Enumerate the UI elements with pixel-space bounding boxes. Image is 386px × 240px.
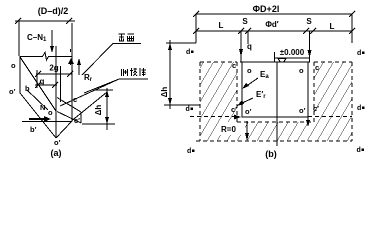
svg-text:d: d	[187, 148, 191, 155]
delta-h bottom ref	[82, 123, 115, 125]
svg-text:Δh: Δh	[94, 105, 103, 116]
extension line left	[18, 21, 20, 56]
delta-h top ref	[94, 89, 113, 91]
dim tick right	[66, 18, 72, 24]
diagonal o' to apex	[20, 93, 56, 138]
stub vertical above edge	[70, 49, 72, 52]
tick x241	[238, 28, 244, 34]
svg-text:b: b	[25, 84, 30, 93]
dashed vertical x200	[199, 62, 201, 141]
dashed mid right	[308, 116, 352, 118]
elevation mark tail	[274, 52, 276, 62]
dashed ground left	[200, 61, 237, 63]
g dim line	[35, 84, 57, 86]
centerline	[276, 62, 278, 146]
CJK label ding (top face)	[119, 34, 126, 41]
dim tick	[193, 11, 199, 17]
elevation triangle	[278, 59, 286, 65]
2g tick right	[67, 71, 73, 77]
svg-text:d: d	[186, 106, 190, 113]
tick x352	[349, 28, 355, 34]
top edge with break mark	[20, 53, 72, 61]
svg-text:Φd′: Φd′	[265, 20, 278, 29]
label d left top	[186, 49, 194, 56]
tick x306	[303, 28, 309, 34]
caisson box	[242, 62, 308, 117]
svg-text:o: o	[11, 61, 16, 70]
leader from c-prime corner	[72, 92, 107, 121]
svg-text:d: d	[357, 50, 361, 57]
svg-text:L: L	[330, 22, 335, 31]
extension x241 with down arrow	[240, 31, 242, 62]
svg-text:o′: o′	[9, 87, 16, 96]
dashed vertical x314	[313, 62, 315, 122]
svg-text:c′: c′	[231, 105, 237, 114]
dashed vertical x352	[351, 62, 353, 141]
extension tick vertical	[36, 70, 38, 88]
svg-text:Δh: Δh	[160, 87, 169, 98]
right V edge to apex	[56, 121, 72, 138]
delta-h bottom ref fig b	[164, 104, 200, 106]
diagonal o to center	[20, 57, 56, 111]
hatch bottom strip	[237, 122, 314, 141]
svg-text:d: d	[357, 105, 361, 112]
dim tick left	[15, 18, 21, 24]
left edge o-o'	[19, 56, 21, 93]
N arrow	[29, 116, 51, 122]
tick x313	[310, 28, 316, 34]
extension x248	[247, 31, 249, 44]
extension left x196	[195, 14, 197, 43]
g tick left	[35, 82, 41, 88]
leader to top-face label	[82, 44, 141, 76]
svg-text:o: o	[299, 66, 304, 75]
dim line (D-d)/2	[15, 20, 75, 22]
short vertical line	[60, 66, 62, 102]
label d left bottom	[187, 148, 195, 155]
right vertical edge	[71, 23, 73, 121]
dashed ground right	[314, 61, 352, 63]
svg-text:c: c	[315, 63, 319, 72]
small down arrow at box bottom-right	[307, 117, 309, 121]
svg-text:d: d	[357, 147, 361, 154]
svg-text:R=0: R=0	[221, 125, 236, 134]
2g tick left	[35, 71, 41, 77]
tick x248	[245, 28, 251, 34]
underline of elevation	[274, 57, 310, 59]
hatch left block	[200, 62, 237, 141]
svg-text:2g: 2g	[49, 64, 58, 73]
svg-text:o′: o′	[299, 106, 306, 115]
svg-text:(D–d)/2: (D–d)/2	[38, 6, 69, 16]
svg-text:o: o	[48, 108, 53, 117]
tick x196	[193, 28, 199, 34]
label d right mid	[357, 105, 365, 112]
svg-text:o′: o′	[54, 138, 61, 147]
bottom edge b'-c'	[22, 121, 72, 123]
svg-text:(a): (a)	[51, 148, 62, 158]
g tick right	[52, 82, 58, 88]
svg-text:L: L	[219, 21, 224, 30]
delta-h dim vertical fig b	[169, 40, 171, 109]
Ea leader arrow	[245, 78, 258, 87]
delta-h top ref fig b	[166, 42, 196, 44]
svg-text:b′: b′	[30, 125, 37, 134]
short diagonal b edge	[27, 90, 48, 110]
CJK label leng (edge)	[130, 68, 137, 76]
label d right bottom	[357, 147, 365, 154]
svg-text:o′: o′	[245, 107, 252, 116]
extension x309.5 with down arrow	[309, 31, 311, 62]
2g dim line	[36, 73, 72, 75]
dashed mid left	[190, 116, 236, 118]
svg-text:d: d	[186, 49, 190, 56]
hatch right block	[314, 62, 352, 141]
R=0 white backing	[220, 122, 245, 135]
svg-text:o: o	[247, 66, 252, 75]
extension right x352	[351, 14, 353, 43]
svg-text:S: S	[306, 17, 312, 26]
svg-text:g: g	[40, 77, 45, 86]
arrowhead to box corner left	[234, 115, 241, 120]
dashed bottom	[196, 140, 352, 142]
leader to side-wedge label	[60, 79, 148, 106]
E'r leader arrow	[240, 98, 253, 104]
inner face diagonal lower	[57, 112, 81, 124]
down arrow under C-N1	[51, 30, 53, 47]
svg-text:ΦD+2l: ΦD+2l	[253, 4, 280, 14]
delta-h dim vertical	[106, 88, 108, 130]
svg-text:S: S	[242, 17, 248, 26]
dim tick	[349, 11, 355, 17]
inner face diagonal upper	[57, 98, 81, 113]
center vertical line	[55, 46, 57, 138]
dim line phiD+2l	[196, 13, 352, 15]
second leader to side-wedge label	[84, 79, 119, 93]
label d left mid	[186, 106, 194, 113]
up arrow at top face	[78, 63, 80, 75]
dashed under box	[237, 121, 314, 123]
CJK label ti (body)	[140, 68, 146, 76]
dim line row2	[196, 30, 352, 32]
R=0 down arrow	[246, 121, 248, 134]
svg-text:(b): (b)	[265, 149, 277, 159]
svg-text:q: q	[247, 42, 252, 51]
CJK label ce (side)	[122, 69, 128, 76]
dashed vertical x237	[236, 62, 238, 122]
solid arrow below edge	[68, 58, 74, 64]
ground line	[240, 61, 310, 63]
svg-text:N: N	[40, 103, 45, 112]
parallelogram right edge	[80, 112, 82, 123]
CJK label mian (top face)	[128, 34, 135, 41]
svg-text:c: c	[73, 95, 77, 104]
label d right top	[357, 50, 365, 57]
svg-text:±0.000: ±0.000	[280, 48, 305, 57]
